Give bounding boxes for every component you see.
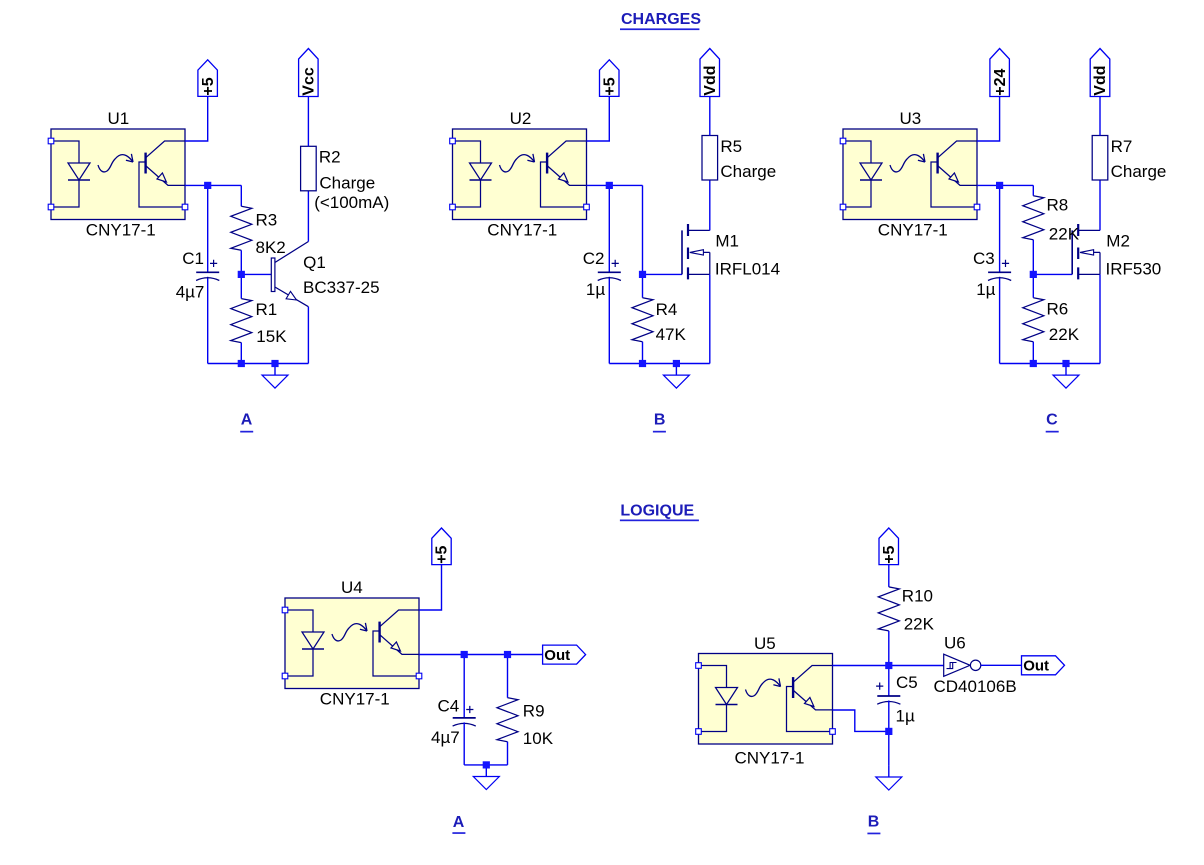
svg-text:U4: U4 — [341, 578, 363, 597]
svg-text:CNY17-1: CNY17-1 — [86, 220, 156, 239]
svg-text:4µ7: 4µ7 — [176, 282, 205, 301]
svg-text:+5: +5 — [434, 545, 451, 563]
svg-text:U3: U3 — [900, 109, 922, 128]
svg-text:R7: R7 — [1111, 137, 1133, 156]
svg-text:M2: M2 — [1106, 231, 1130, 250]
svg-text:R9: R9 — [523, 702, 545, 721]
svg-text:+24: +24 — [992, 68, 1009, 95]
svg-text:U2: U2 — [510, 109, 532, 128]
svg-text:BC337-25: BC337-25 — [303, 278, 380, 297]
svg-text:R5: R5 — [720, 137, 742, 156]
svg-text:CHARGES: CHARGES — [621, 11, 701, 28]
svg-text:U1: U1 — [108, 109, 130, 128]
svg-text:15K: 15K — [256, 327, 287, 346]
svg-text:4µ7: 4µ7 — [431, 728, 460, 747]
svg-text:CD40106B: CD40106B — [934, 677, 1017, 696]
svg-text:C5: C5 — [896, 673, 918, 692]
svg-text:R4: R4 — [656, 300, 678, 319]
svg-text:R1: R1 — [256, 300, 278, 319]
svg-text:Vdd: Vdd — [1092, 65, 1109, 95]
svg-text:8K2: 8K2 — [256, 238, 286, 257]
svg-text:1µ: 1µ — [976, 280, 995, 299]
svg-text:C2: C2 — [583, 249, 605, 268]
svg-text:R6: R6 — [1047, 300, 1069, 319]
svg-text:B: B — [654, 412, 666, 429]
svg-text:47K: 47K — [656, 325, 687, 344]
svg-text:Charge: Charge — [1111, 162, 1167, 181]
svg-text:U6: U6 — [944, 634, 966, 653]
svg-text:CNY17-1: CNY17-1 — [487, 220, 557, 239]
svg-text:A: A — [241, 412, 253, 429]
svg-text:1µ: 1µ — [896, 707, 915, 726]
svg-text:M1: M1 — [715, 231, 739, 250]
svg-text:22K: 22K — [1049, 325, 1080, 344]
svg-text:C3: C3 — [973, 249, 995, 268]
svg-text:IRF530: IRF530 — [1106, 259, 1162, 278]
svg-text:R2: R2 — [319, 148, 341, 167]
svg-text:IRFL014: IRFL014 — [715, 259, 780, 278]
svg-text:+5: +5 — [881, 545, 898, 563]
svg-text:1µ: 1µ — [586, 280, 605, 299]
svg-text:U5: U5 — [754, 634, 776, 653]
svg-text:CNY17-1: CNY17-1 — [878, 220, 948, 239]
svg-text:Charge: Charge — [720, 162, 776, 181]
svg-text:C: C — [1046, 412, 1058, 429]
svg-text:B: B — [868, 814, 880, 831]
svg-text:Vcc: Vcc — [301, 67, 318, 96]
svg-text:LOGIQUE: LOGIQUE — [620, 503, 694, 520]
svg-text:22K: 22K — [1049, 225, 1080, 244]
svg-text:10K: 10K — [523, 729, 554, 748]
svg-text:Charge: Charge — [319, 174, 375, 193]
svg-text:R3: R3 — [256, 210, 278, 229]
svg-text:+5: +5 — [200, 77, 217, 95]
svg-text:Out: Out — [1023, 658, 1049, 675]
svg-text:CNY17-1: CNY17-1 — [735, 749, 805, 768]
svg-text:+5: +5 — [602, 77, 619, 95]
svg-text:Vdd: Vdd — [702, 65, 719, 95]
svg-text:A: A — [453, 814, 465, 831]
svg-text:C1: C1 — [182, 249, 204, 268]
svg-text:22K: 22K — [904, 615, 935, 634]
svg-text:Out: Out — [544, 647, 570, 664]
svg-text:R8: R8 — [1047, 196, 1069, 215]
svg-text:Q1: Q1 — [303, 253, 326, 272]
svg-text:C4: C4 — [438, 697, 460, 716]
svg-text:CNY17-1: CNY17-1 — [320, 689, 390, 708]
svg-text:(<100mA): (<100mA) — [314, 193, 389, 212]
svg-text:R10: R10 — [902, 587, 933, 606]
